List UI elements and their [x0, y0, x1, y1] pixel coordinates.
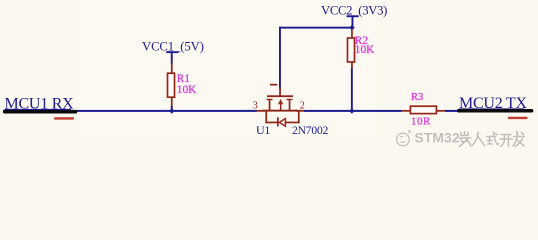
junction (VCC2 branch) [349, 25, 355, 31]
net label MCU2 TX [457, 95, 533, 113]
wire (FET to R3) [304, 110, 402, 112]
left stem [269, 99, 271, 111]
watermark CJK 嵌入式开发 [459, 132, 525, 147]
glyph qian [459, 132, 471, 147]
power port VCC1 (5V) [142, 39, 204, 64]
glyph ru [473, 132, 485, 146]
pin 2 lead [296, 110, 304, 112]
resistor R2 [348, 29, 376, 69]
wire (branch to gate) [279, 27, 353, 89]
pin number 1 (rotated) [270, 84, 277, 86]
pin 1 gate lead [279, 88, 281, 97]
svg-text:3: 3 [253, 100, 258, 111]
red underline mark (right) [508, 117, 528, 119]
left contact cap [267, 99, 273, 100]
svg-text:U1: U1 [256, 123, 270, 137]
watermark text STM32 [415, 130, 460, 146]
gate bar [267, 95, 293, 97]
wire (R1 to bus) [171, 106, 173, 111]
wire (R3 to MCU2) [445, 110, 458, 112]
resistor R3 [401, 92, 445, 127]
svg-text:R3: R3 [411, 92, 423, 103]
right stem [289, 99, 291, 111]
glyph shi [487, 132, 499, 144]
body diode [277, 117, 279, 126]
glyph kai [500, 135, 513, 147]
glyph fa [513, 132, 525, 147]
bottom rail [263, 110, 298, 112]
svg-text:10R: 10R [411, 115, 431, 127]
junction (R2/bus) [349, 108, 354, 113]
svg-text:2: 2 [300, 100, 305, 111]
resistor R1 [168, 63, 198, 109]
watermark logo [397, 131, 411, 146]
substrate arrow [278, 99, 283, 104]
svg-text:10K: 10K [355, 44, 375, 56]
body diode loop [265, 111, 267, 123]
wire [3, 110, 257, 112]
junction (R1/bus) [169, 108, 174, 113]
red underline mark (left) [54, 117, 74, 119]
power port VCC2 (3V3) [321, 3, 387, 27]
transistor U1 2N7002 [253, 84, 329, 137]
pin 3 lead [257, 110, 265, 112]
net label MCU1 RX [3, 95, 77, 113]
svg-text:VCC2_(3V3): VCC2_(3V3) [321, 3, 387, 17]
wire (R2 to bus) [351, 69, 353, 112]
svg-text:STM32: STM32 [415, 130, 460, 146]
svg-text:2N7002: 2N7002 [292, 124, 329, 137]
right contact cap [287, 99, 293, 100]
svg-text:10K: 10K [177, 84, 197, 96]
